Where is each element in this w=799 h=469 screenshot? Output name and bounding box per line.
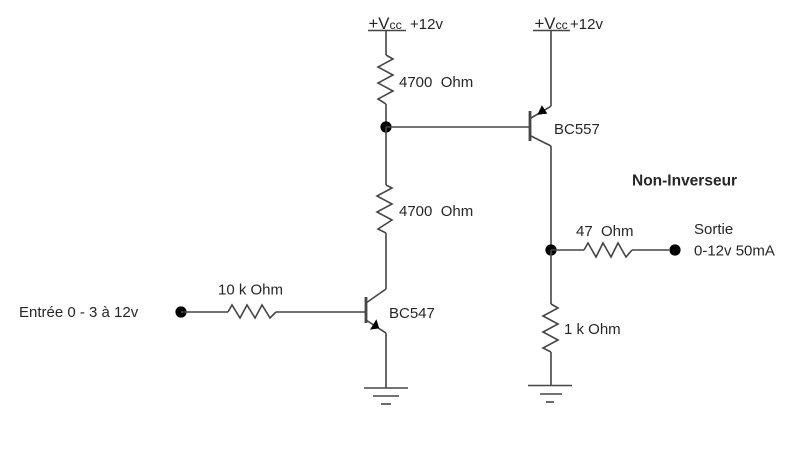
- wire node A to R2: [385, 127, 387, 185]
- svg-text:+12v: +12v: [570, 16, 603, 33]
- svg-text:+Vcc: +Vcc: [369, 14, 402, 33]
- wire Q2 collector to node B: [550, 146, 552, 250]
- svg-text:+12v: +12v: [410, 16, 443, 33]
- wire Vcc2 to Q2 emitter: [550, 31, 552, 106]
- transistor Q1 BC547: [366, 289, 386, 333]
- input terminal dot: [175, 306, 186, 317]
- ground (Q1): [364, 388, 408, 404]
- svg-text:0-12v 50mA: 0-12v 50mA: [694, 243, 775, 260]
- resistor R1 4700 Ohm: [378, 55, 393, 104]
- wire Q1 emitter to ground: [385, 333, 387, 388]
- wire node B to R4: [550, 250, 552, 304]
- svg-text:Sortie: Sortie: [694, 221, 733, 238]
- wire Vcc1 to R1: [385, 31, 387, 55]
- wire R5 to output: [632, 249, 669, 251]
- power +Vcc symbol (left rail): [368, 14, 406, 33]
- resistor R4 1 k Ohm: [543, 304, 558, 352]
- wire R2 to Q1 collector: [385, 233, 387, 289]
- output terminal dot: [669, 244, 680, 255]
- wire R1 to node A: [385, 104, 387, 127]
- node B junction dot: [545, 244, 556, 255]
- resistor R2 4700 Ohm: [377, 185, 392, 233]
- transistor Q2 BC557: [530, 105, 551, 146]
- resistor R3 10 k Ohm: [228, 305, 276, 318]
- resistor R5 47 Ohm: [584, 243, 632, 257]
- node A junction dot: [380, 121, 391, 132]
- svg-text:Entrée 0 - 3 à 12v: Entrée 0 - 3 à 12v: [19, 304, 139, 321]
- wire R4 to ground: [550, 352, 552, 385]
- svg-text:4700 Ohm: 4700 Ohm: [399, 203, 473, 220]
- wire R3 to Q1 base: [276, 311, 366, 313]
- svg-text:1 k Ohm: 1 k Ohm: [564, 321, 621, 338]
- svg-text:BC557: BC557: [554, 121, 600, 138]
- wire input to R3: [181, 311, 228, 313]
- svg-text:+Vcc: +Vcc: [535, 14, 568, 33]
- power +Vcc symbol (right rail): [533, 14, 570, 33]
- wire node B to R5: [551, 249, 584, 251]
- ground (Q2): [528, 386, 572, 403]
- svg-text:47 Ohm: 47 Ohm: [576, 223, 634, 240]
- svg-text:10 k Ohm: 10 k Ohm: [218, 282, 283, 299]
- svg-text:BC547: BC547: [389, 305, 435, 322]
- svg-text:Non-Inverseur: Non-Inverseur: [632, 173, 737, 190]
- svg-text:4700 Ohm: 4700 Ohm: [399, 74, 473, 91]
- wire node A to Q2 base: [386, 126, 529, 128]
